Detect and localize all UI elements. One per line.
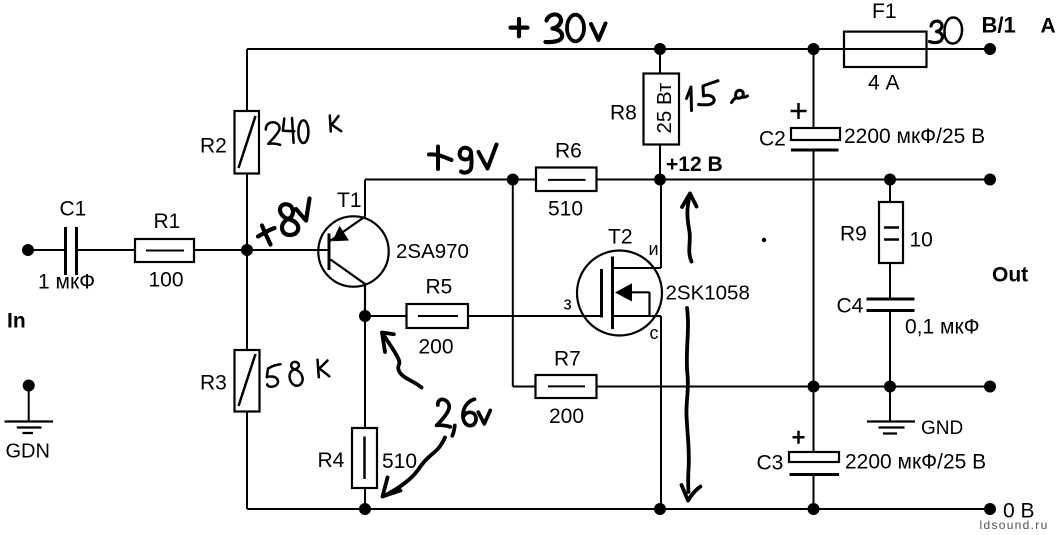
node C3 top (808, 381, 820, 393)
svg-text:R2: R2 (200, 134, 227, 157)
resistor R3 (235, 350, 260, 412)
handwriting +8V (258, 226, 275, 245)
svg-text:In: In (7, 310, 26, 333)
handwriting 58 к (267, 364, 281, 386)
node collector (359, 310, 371, 322)
svg-text:R7: R7 (554, 347, 581, 370)
svg-text:T2: T2 (608, 226, 633, 249)
node C3 bottom (808, 503, 820, 515)
svg-text:ldsound.ru: ldsound.ru (980, 518, 1049, 532)
node +12 (654, 174, 666, 186)
svg-text:R8: R8 (610, 102, 637, 125)
svg-text:510: 510 (548, 198, 583, 221)
wire vertical R6-R7 link (512, 180, 514, 387)
svg-text:C1: C1 (60, 198, 87, 221)
svg-text:R9: R9 (840, 223, 867, 246)
resistor R7 (536, 375, 597, 398)
transistor T1 collector (331, 260, 366, 317)
handwriting arrow to collector node (382, 333, 422, 388)
svg-text:C4: C4 (837, 295, 864, 318)
svg-text:GND: GND (921, 418, 963, 439)
node C4 bottom (884, 381, 896, 393)
capacitor C4 (867, 299, 915, 311)
transistor T2 channel bar (611, 257, 614, 330)
capacitor C1 (66, 227, 77, 275)
node base (241, 244, 253, 256)
svg-text:200: 200 (549, 405, 584, 428)
handwriting + 30v (511, 19, 528, 36)
wire R5 gate row (365, 315, 602, 317)
svg-text:10: 10 (910, 229, 933, 252)
node out low (984, 381, 996, 393)
resistor R5 (407, 304, 469, 328)
transistor T2 arrow (615, 283, 632, 301)
resistor R9 (879, 202, 903, 263)
wire C3 branch (813, 387, 815, 510)
wire left vertical branch (246, 49, 248, 509)
node R4 bottom (359, 503, 371, 515)
wire R9 C4 branch (889, 180, 891, 387)
transistor T1 circle (318, 216, 388, 286)
resistor R1 (135, 239, 194, 262)
svg-text:с: с (650, 323, 659, 343)
svg-text:C2: C2 (759, 128, 786, 151)
svg-text:4 А: 4 А (868, 72, 900, 95)
svg-text:R4: R4 (318, 449, 345, 472)
svg-text:100: 100 (149, 269, 184, 292)
svg-text:R6: R6 (555, 140, 582, 163)
transistor T1 emitter (330, 216, 366, 241)
svg-text:200: 200 (419, 336, 454, 359)
wire R4 stubs (364, 316, 366, 509)
wire T1 emitter riser (364, 180, 366, 217)
svg-text:з: з (564, 294, 572, 314)
node R9 top (884, 174, 896, 186)
node out top (984, 43, 996, 55)
svg-text:и: и (649, 239, 659, 259)
svg-text:R5: R5 (426, 276, 453, 299)
svg-text:25 Вт: 25 Вт (653, 82, 676, 133)
handwriting arrow up near +12 (682, 194, 697, 262)
node drain bottom (654, 503, 666, 515)
svg-text:510: 510 (382, 450, 417, 473)
resistor R2 (235, 111, 260, 174)
svg-text:+12 В: +12 В (666, 153, 723, 176)
ground GND right (867, 422, 915, 434)
svg-text:1 мкФ: 1 мкФ (38, 271, 95, 294)
transistor T1 base bar (328, 234, 331, 271)
wire input row (28, 249, 329, 251)
wire R7 row (513, 386, 990, 388)
handwriting 240 к (266, 122, 280, 145)
svg-text:R3: R3 (200, 371, 227, 394)
capacitor C3 (789, 452, 839, 462)
node input (22, 244, 34, 256)
wire top +30V rail (247, 48, 990, 50)
svg-text:GDN: GDN (6, 441, 50, 463)
ground GDN input (23, 380, 35, 392)
node +9V (507, 174, 519, 186)
svg-text:C3: C3 (757, 452, 784, 475)
transistor T2 gate bar (600, 269, 603, 318)
fuse F1 (844, 32, 927, 67)
wire +9V output row (365, 179, 990, 181)
svg-text:А: А (1041, 15, 1056, 38)
wire R8 stubs (659, 49, 661, 180)
wire T2 source lead (613, 180, 662, 269)
resistor R8 (644, 74, 680, 145)
handwriting 15 (687, 87, 692, 111)
svg-text:F1: F1 (872, 0, 897, 23)
svg-text:0,1 мкФ: 0,1 мкФ (905, 316, 980, 339)
node R8 top (654, 43, 666, 55)
stray dot (762, 238, 766, 242)
svg-text:2200 мкФ/25 В: 2200 мкФ/25 В (844, 125, 985, 148)
svg-text:T1: T1 (337, 189, 362, 212)
handwriting +9V (429, 147, 452, 170)
transistor T1 emitter arrow (333, 226, 350, 241)
svg-text:Out: Out (992, 264, 1028, 287)
handwriting arrow to R4 bottom (383, 438, 446, 497)
node out mid (984, 174, 996, 186)
node C2 top (808, 43, 820, 55)
svg-text:R1: R1 (154, 210, 181, 233)
wire GND stub (889, 387, 891, 422)
handwriting arrow down long (682, 308, 701, 501)
svg-text:В/1: В/1 (982, 13, 1016, 38)
resistor R6 (536, 168, 597, 192)
node out bottom (984, 503, 996, 515)
transistor T2 circle (577, 251, 662, 336)
wire T2 drain lead (613, 316, 662, 509)
svg-text:2SK1058: 2SK1058 (666, 282, 750, 305)
handwriting я (732, 90, 748, 102)
svg-text:2SA970: 2SA970 (396, 240, 469, 263)
handwriting 2,6v (437, 399, 451, 426)
wire C2 branch (813, 49, 815, 387)
wire bottom 0V rail (247, 508, 990, 510)
resistor R4 (352, 428, 377, 488)
handwriting 30 fuse (930, 21, 943, 42)
capacitor C2 (791, 128, 840, 140)
svg-text:2200 мкФ/25 В: 2200 мкФ/25 В (845, 450, 986, 473)
